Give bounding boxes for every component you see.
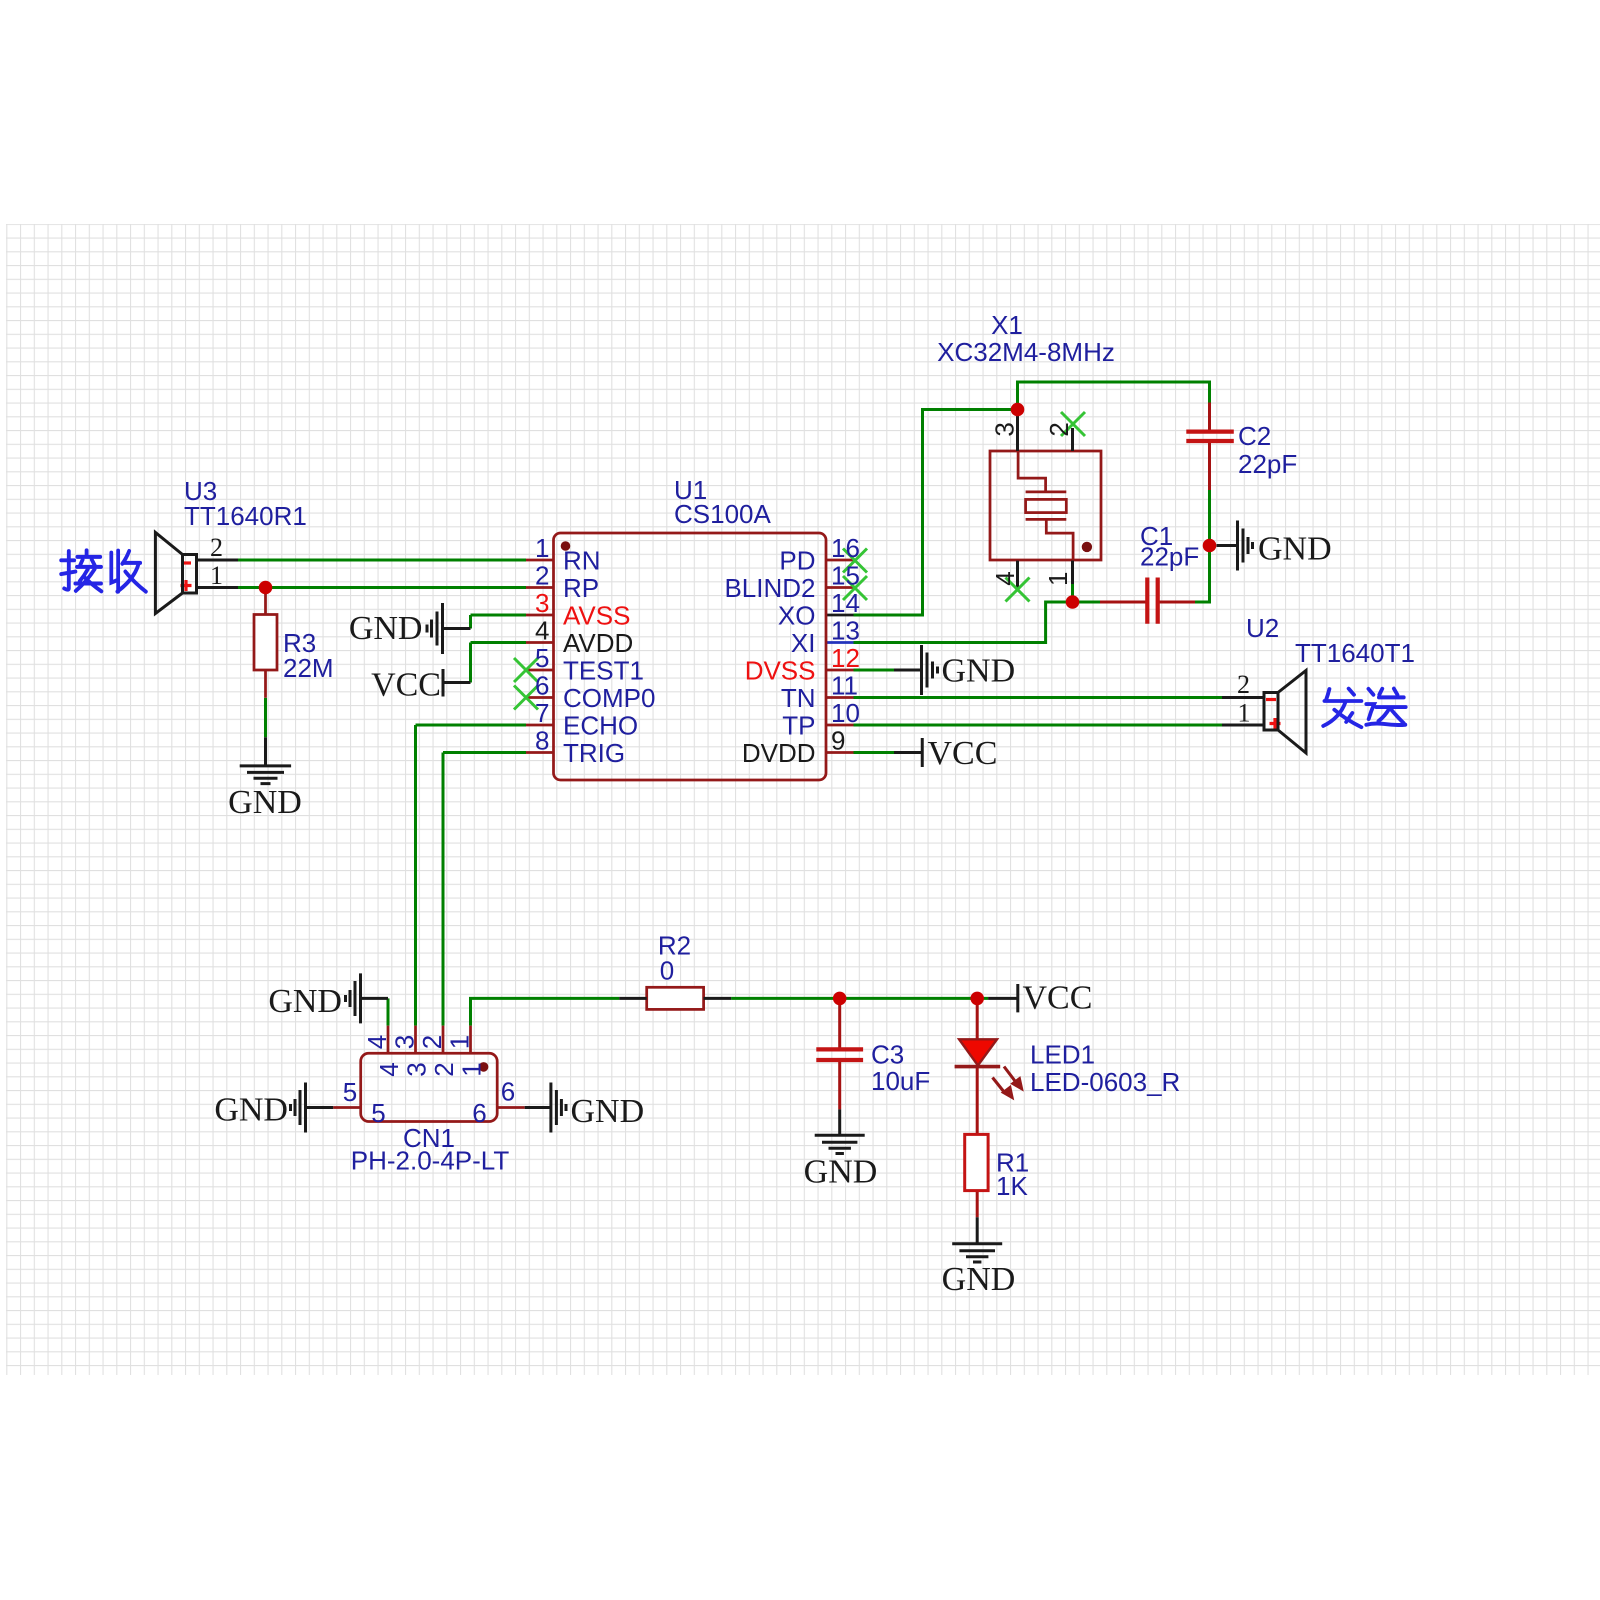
svg-text:RN: RN [563,546,601,576]
svg-text:1: 1 [1043,572,1073,586]
svg-text:AVDD: AVDD [563,628,633,658]
svg-text:2: 2 [535,561,549,591]
svg-text:1: 1 [535,533,549,563]
svg-text:TT1640T1: TT1640T1 [1295,638,1415,668]
svg-text:10: 10 [831,698,860,728]
svg-text:1: 1 [210,561,223,590]
svg-text:U2: U2 [1246,613,1279,643]
svg-text:LED1: LED1 [1030,1040,1095,1070]
svg-text:GND: GND [228,784,302,821]
svg-text:4: 4 [374,1062,404,1076]
svg-text:TT1640R1: TT1640R1 [184,501,307,531]
svg-text:XO: XO [778,601,816,631]
svg-text:GND: GND [349,610,423,647]
svg-text:VCC: VCC [1023,980,1093,1017]
svg-text:GND: GND [942,1261,1016,1298]
svg-text:3: 3 [402,1062,432,1076]
svg-text:6: 6 [472,1098,486,1128]
svg-text:GND: GND [268,983,342,1020]
svg-text:16: 16 [831,533,860,563]
svg-text:1: 1 [445,1035,475,1049]
svg-text:PH-2.0-4P-LT: PH-2.0-4P-LT [351,1146,510,1176]
svg-text:14: 14 [831,588,860,618]
svg-text:5: 5 [371,1098,385,1128]
svg-text:2: 2 [210,533,223,562]
svg-text:VCC: VCC [928,735,998,772]
svg-text:GND: GND [214,1092,288,1129]
svg-text:GND: GND [571,1093,645,1130]
svg-text:GND: GND [1258,531,1332,568]
svg-text:5: 5 [535,643,549,673]
svg-text:6: 6 [501,1077,515,1107]
svg-text:22pF: 22pF [1238,449,1297,479]
svg-text:XC32M4-8MHz: XC32M4-8MHz [937,337,1115,367]
svg-text:5: 5 [343,1077,357,1107]
svg-text:1: 1 [457,1062,487,1076]
svg-text:C3: C3 [871,1040,904,1070]
svg-text:4: 4 [362,1035,392,1049]
svg-text:LED-0603_R: LED-0603_R [1030,1067,1180,1097]
svg-text:11: 11 [831,671,858,701]
svg-text:4: 4 [535,616,549,646]
svg-text:9: 9 [831,726,845,756]
svg-text:C2: C2 [1238,421,1271,451]
svg-text:22pF: 22pF [1140,542,1199,572]
svg-text:XI: XI [791,628,816,658]
svg-text:3: 3 [535,588,549,618]
svg-text:GND: GND [804,1154,878,1191]
svg-text:1: 1 [1238,699,1251,728]
svg-text:TP: TP [782,711,815,741]
svg-text:TN: TN [781,683,816,713]
svg-text:7: 7 [535,698,549,728]
svg-text:2: 2 [417,1035,447,1049]
svg-text:CS100A: CS100A [674,499,771,529]
svg-text:22M: 22M [283,653,334,683]
svg-text:15: 15 [831,561,860,591]
svg-text:6: 6 [535,671,549,701]
svg-text:12: 12 [831,643,860,673]
svg-text:DVSS: DVSS [745,656,816,686]
svg-text:8: 8 [535,726,549,756]
svg-text:3: 3 [989,422,1019,436]
svg-text:3: 3 [390,1035,420,1049]
svg-text:DVDD: DVDD [742,738,816,768]
svg-text:BLIND2: BLIND2 [724,573,815,603]
svg-text:VCC: VCC [371,667,441,704]
svg-text:COMP0: COMP0 [563,683,655,713]
svg-text:1K: 1K [996,1171,1028,1201]
svg-text:2: 2 [429,1062,459,1076]
svg-text:X1: X1 [991,310,1023,340]
svg-text:GND: GND [942,653,1016,690]
svg-text:TRIG: TRIG [563,738,625,768]
svg-text:ECHO: ECHO [563,711,638,741]
svg-text:13: 13 [831,616,860,646]
svg-text:PD: PD [779,546,815,576]
svg-text:AVSS: AVSS [563,601,630,631]
svg-text:2: 2 [1044,422,1074,436]
svg-text:0: 0 [660,956,674,986]
svg-text:4: 4 [990,571,1020,585]
svg-text:RP: RP [563,573,599,603]
svg-text:10uF: 10uF [871,1066,930,1096]
svg-text:2: 2 [1237,670,1250,699]
svg-text:TEST1: TEST1 [563,656,644,686]
